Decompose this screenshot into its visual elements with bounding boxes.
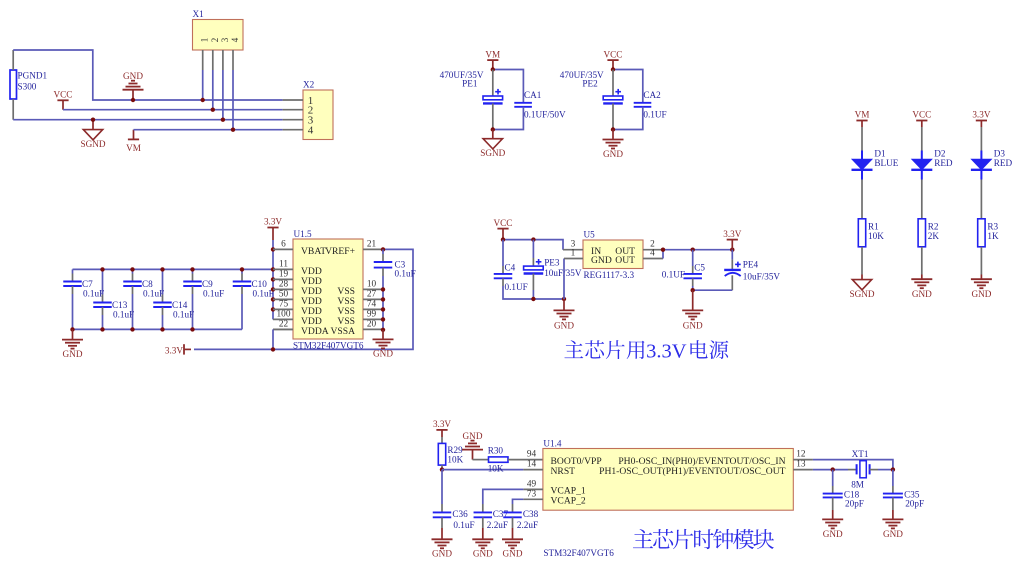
svg-text:3.3V: 3.3V [972,110,990,120]
svg-text:SGND: SGND [80,139,105,149]
pin X1.3 [222,50,224,70]
wire VCC to D2 [921,127,923,151]
capacitor C7 [72,269,74,273]
wire net1 top [13,50,282,100]
capacitor C14 [162,269,164,294]
connector X1 [193,20,244,51]
svg-text:GND: GND [912,289,932,299]
LED D3 [980,151,982,160]
svg-text:2: 2 [210,38,220,43]
power VCC [57,99,68,101]
capacitor C5 [692,250,694,266]
ground GND net1 [132,91,134,101]
junction X1.2 [211,108,215,112]
svg-text:3.3V: 3.3V [165,345,183,355]
pin U5.4 OUT [643,258,663,260]
wire U5 GND pin [563,259,565,300]
junction C35 [891,467,895,471]
pin X1.1 [202,50,204,70]
svg-text:GND: GND [473,549,493,559]
svg-text:PE2: PE2 [582,79,598,89]
svg-text:3.3V: 3.3V [646,340,687,362]
wire U5 OUT to 3.3V [663,250,732,259]
svg-text:10K: 10K [868,231,884,241]
junction bottom bus [160,327,164,331]
svg-text:13: 13 [796,460,806,470]
capacitor CA2 [634,102,652,104]
LED D1 [861,151,863,160]
svg-text:10K: 10K [488,464,504,474]
wire PE2 top [613,70,643,103]
junction X1.3 [221,118,225,122]
svg-text:0.1uF: 0.1uF [395,269,416,279]
svg-text:X2: X2 [303,80,315,90]
svg-text:0.1uF: 0.1uF [173,310,194,320]
junction PE3 bottom [531,297,535,301]
svg-text:VM: VM [126,143,141,153]
wire VCAP_1 [483,489,524,504]
svg-text:VCC: VCC [604,49,623,59]
svg-text:19: 19 [279,270,289,280]
pin U1.5.6 VBAT [273,248,293,250]
power VM over D1 [856,120,867,122]
junction top bus [190,267,194,271]
svg-text:SGND: SGND [480,148,505,158]
wire R3 down [980,247,982,275]
pin X2.2 [283,109,303,111]
svg-text:PE1: PE1 [462,79,478,89]
pin U5.2 OUT [643,249,663,251]
junction net3 SGND [91,118,95,122]
svg-text:6: 6 [281,240,286,250]
wire VSS rail [382,276,384,330]
pin U1.5.11 VDD [273,268,293,270]
svg-text:VDDA: VDDA [301,326,329,337]
svg-text:1: 1 [571,248,576,258]
svg-text:GND: GND [554,320,574,330]
ground GND under cap bank [72,329,74,339]
svg-text:2K: 2K [928,231,940,241]
svg-text:VCC: VCC [912,110,931,120]
wire PE2 bottom [613,107,643,130]
wire GND bottom U5 [503,286,564,299]
capacitor C13 [102,269,104,294]
svg-text:0.1uF: 0.1uF [83,289,104,299]
wire D1 to R1 [861,180,863,219]
junction PE2 top [611,67,615,71]
svg-text:3: 3 [220,37,230,42]
power 3.3V over U1.5 [267,227,278,229]
capacitor C36 [441,504,443,512]
svg-text:GND: GND [683,320,703,330]
capacitor C3 [382,249,384,254]
component PGND1 [10,70,17,99]
pin U1.5.75 VDD [273,308,293,310]
svg-text:GND: GND [591,255,612,266]
svg-text:C9: C9 [202,279,213,289]
svg-text:VSSA: VSSA [330,326,355,337]
svg-text:GND: GND [373,349,393,359]
svg-text:10: 10 [367,280,377,290]
pin U1.5.74 VSS [363,308,383,310]
svg-text:99: 99 [367,310,377,320]
svg-text:GND: GND [123,71,143,81]
pin U1.5.20 VSSA [363,328,383,330]
svg-text:GND: GND [63,349,83,359]
pin U1.5.21 VREF+ [363,248,383,250]
svg-text:28: 28 [279,280,289,290]
svg-text:X1: X1 [193,9,205,19]
svg-text:CA2: CA2 [643,90,661,100]
pin U1.4.14 NRST [523,469,543,471]
svg-text:C13: C13 [112,300,128,310]
wire VCAP_2 [513,499,524,504]
svg-text:10uF/35V: 10uF/35V [544,268,582,278]
svg-text:R1: R1 [868,221,879,231]
junction bottom bus [190,327,194,331]
svg-text:1: 1 [200,38,210,43]
pin U5.1 GND [564,258,583,260]
capacitor C4 [502,240,504,266]
junction X1.4 [231,128,235,132]
junction bottom bus [70,327,74,331]
svg-text:4: 4 [308,125,314,137]
svg-text:0.1uF: 0.1uF [203,289,224,299]
junction X1.1 [201,98,205,102]
ground SGND net3 [92,120,94,130]
svg-text:0.1UF: 0.1UF [505,282,528,292]
junction U5 OUT [661,248,665,252]
junction PE4 top [730,248,734,252]
wire OSC_IN top [813,460,893,470]
svg-text:20: 20 [367,320,377,330]
wire OSC_OUT [813,469,848,471]
pin U1.4.12 OSC_IN [793,459,813,461]
svg-text:PE4: PE4 [743,260,759,270]
svg-text:75: 75 [279,300,289,310]
svg-text:VCC: VCC [494,218,513,228]
junctions VSS rail [381,287,385,291]
svg-text:0.1uF: 0.1uF [253,289,274,299]
svg-text:PH1-OSC_OUT(PH1)/EVENTOUT/OSC_: PH1-OSC_OUT(PH1)/EVENTOUT/OSC_OUT [599,466,786,477]
junction VREF+ [381,247,385,251]
capacitor C18 [832,470,834,486]
svg-text:CA1: CA1 [524,90,542,100]
svg-text:74: 74 [367,300,377,310]
svg-text:RED: RED [934,158,953,168]
ground GND under C37 [482,528,484,539]
svg-text:VM: VM [855,110,870,120]
svg-text:OUT: OUT [615,255,635,266]
svg-text:BLUE: BLUE [874,158,898,168]
wire R1 down [861,247,863,275]
wire NRST to C36 [441,470,443,504]
svg-text:R29: R29 [447,445,463,455]
svg-text:GND: GND [503,549,523,559]
ground GND under C18 [832,510,834,519]
svg-text:3.3V: 3.3V [723,229,741,239]
crystal XT1 [848,469,857,471]
svg-text:C14: C14 [172,300,188,310]
svg-text:C4: C4 [505,263,516,273]
svg-text:PGND1: PGND1 [18,71,48,81]
svg-text:R30: R30 [488,445,504,455]
wire 3.3V to D3 [980,127,982,151]
LED D2 [921,151,923,160]
svg-text:GND: GND [971,289,991,299]
svg-text:U5: U5 [584,230,596,240]
capacitor PE1 [492,70,494,97]
wire X1.3 to net3 [222,70,224,120]
wire NRST [442,469,523,471]
svg-text:REG1117-3.3: REG1117-3.3 [584,270,635,280]
pin X1.4 [232,50,234,70]
svg-text:STM32F407VGT6: STM32F407VGT6 [543,548,614,558]
power VM over PE1 [487,59,498,61]
power VCC over D2 [916,120,927,122]
pin U1.5.10 VSS [363,288,383,290]
junctions 3.3V rail U1.5 [271,247,275,251]
capacitor PE4 [731,250,733,260]
svg-text:22: 22 [279,320,289,330]
svg-text:2.2uF: 2.2uF [517,520,538,530]
junction bottom bus [130,327,134,331]
wire net3 [13,119,282,121]
power VCC over PE2 [607,59,618,61]
pin X1.2 [212,50,214,70]
svg-text:GND: GND [463,431,483,441]
wire VREF+ to 3.3V [194,249,413,349]
caption clock module [633,529,653,548]
power VCC over U5 [497,228,508,230]
junction bottom bus [100,327,104,331]
pin U1.5.100 VDD [273,318,293,320]
svg-text:SGND: SGND [849,289,874,299]
pin U1.5.50 VDD [273,298,293,300]
capacitor C10 [241,269,243,273]
svg-text:C7: C7 [82,279,93,289]
pin X2.3 [283,119,303,121]
svg-text:4: 4 [650,248,655,258]
junction net1 GND [131,98,135,102]
svg-text:10uF/35V: 10uF/35V [743,272,781,282]
power 3.3V over PE4 [727,239,738,241]
svg-text:3.3V: 3.3V [264,217,282,227]
junction top bus [130,267,134,271]
pin U1.4.49 VCAP_1 [523,488,543,490]
svg-text:VCAP_2: VCAP_2 [551,496,586,507]
junction PE1 bottom [491,127,495,131]
svg-text:VM: VM [485,49,500,59]
svg-text:GND: GND [823,529,843,539]
ground GND over R30 [462,449,483,451]
ground GND under C5 [692,290,694,310]
svg-text:C10: C10 [252,279,268,289]
wire PE4 bottom [693,289,733,291]
svg-text:VREF+: VREF+ [325,246,355,257]
svg-text:U1.4: U1.4 [543,438,562,448]
wire net2 VCC [63,109,283,111]
caption power supply 3.3V [564,340,583,358]
svg-text:PE3: PE3 [544,258,560,268]
pin U1.5.22 VDDA [273,328,293,330]
junction PE2 bottom [611,127,615,131]
svg-text:4: 4 [230,37,240,42]
junction PE1 top [491,67,495,71]
svg-text:R2: R2 [928,221,939,231]
svg-text:94: 94 [527,450,537,460]
wire X1.1 to net1 [202,70,204,100]
capacitor CA1 [514,102,532,104]
junction PE3 top [531,237,535,241]
svg-text:GND: GND [603,149,623,159]
wire 3.3V rail U1.5 [272,240,274,319]
ground GND under U5 [563,299,565,310]
ground SGND under R1 [861,275,863,280]
wire PE1 top [493,70,524,103]
pin U1.4.73 VCAP_2 [523,498,543,500]
resistor R3 [978,219,985,247]
pin U5.3 IN [563,249,583,251]
svg-text:0.1uF: 0.1uF [453,520,474,530]
capacitor C8 [132,269,134,273]
svg-text:14: 14 [527,460,537,470]
svg-text:VCC: VCC [54,90,73,100]
svg-text:C5: C5 [694,263,705,273]
svg-text:0.1UF/50V: 0.1UF/50V [524,110,566,120]
ground SGND under PE1 [492,130,494,139]
wire D2 to R2 [921,180,923,219]
svg-text:0.1UF: 0.1UF [662,270,685,280]
junction C5 bottom [691,288,695,292]
IC U5 [583,240,643,269]
svg-text:GND: GND [883,529,903,539]
capacitor C38 [512,504,514,512]
junction VDDA [271,347,275,351]
svg-text:10K: 10K [447,454,463,464]
ground GND under C36 [441,528,443,539]
capacitor C35 [892,470,894,486]
svg-text:0.1uF: 0.1uF [143,289,164,299]
junction C5 top [691,248,695,252]
resistor R1 [858,219,865,247]
wire net4 VM [134,129,283,131]
pin PGND1.1 [12,50,14,70]
svg-text:11: 11 [279,260,288,270]
svg-text:S300: S300 [18,82,37,92]
pin U1.4.13 OSC_OUT [793,469,813,471]
ground GND under C38 [512,528,514,539]
IC U1.4 [543,449,793,511]
svg-text:27: 27 [367,290,377,300]
svg-text:20pF: 20pF [905,499,924,509]
pin U1.5.99 VSS [363,318,383,320]
svg-text:21: 21 [367,240,377,250]
resistor R2 [918,219,925,247]
ground GND under R3 [980,275,982,280]
pin X2.4 [283,129,303,131]
capacitor C9 [192,269,194,273]
wire VM to D1 [861,127,863,151]
wire GND bottom bus [73,328,243,330]
svg-text:0.1UF: 0.1UF [643,110,666,120]
junction NRST [440,467,444,471]
wire XT1 right [878,469,893,471]
pin X2.1 [283,99,303,101]
svg-text:C36: C36 [452,509,468,519]
pin PGND1.2 [12,99,14,120]
power 3.3V over D3 [976,120,987,122]
junction VCC [501,237,505,241]
wire PE1 bottom [493,107,524,130]
svg-text:50: 50 [279,290,289,300]
svg-text:20pF: 20pF [845,499,864,509]
ground GND under U1.5 [382,330,384,340]
svg-text:C38: C38 [523,509,539,519]
svg-text:1K: 1K [987,231,999,241]
svg-text:NRST: NRST [551,466,576,477]
capacitor PE3 [532,240,534,258]
power VM [133,130,135,140]
pin U1.5.27 VSS [363,298,383,300]
svg-text:GND: GND [432,549,452,559]
junction U5 GND [562,297,566,301]
wire R2 down [921,247,923,275]
svg-text:R3: R3 [987,221,998,231]
power 3.3V over R29 [436,429,447,431]
svg-text:VBAT: VBAT [301,246,326,257]
capacitor C37 [482,504,484,512]
resistor R30 [473,459,489,461]
svg-text:3.3V: 3.3V [433,419,451,429]
svg-text:0.1uF: 0.1uF [113,310,134,320]
ground GND under PE2 [612,130,614,140]
junction top bus [160,267,164,271]
pin U1.5.28 VDD [273,288,293,290]
svg-text:U1.5: U1.5 [294,229,313,239]
junction top bus [100,267,104,271]
wire X1.4 to net4 [232,70,234,130]
svg-text:100: 100 [277,310,291,320]
pin U1.5.19 VDD [273,278,293,280]
svg-text:RED: RED [994,158,1013,168]
svg-text:12: 12 [796,450,806,460]
ground GND under R2 [921,275,923,280]
IC U1.5 [293,239,363,339]
svg-text:49: 49 [527,480,537,490]
svg-text:8M: 8M [851,480,864,490]
svg-text:C8: C8 [142,279,153,289]
wire D3 to R3 [980,180,982,219]
svg-text:2.2uF: 2.2uF [487,520,508,530]
wire VDDA [273,328,293,330]
junction top bus [240,267,244,271]
junction C18 [831,467,835,471]
wire VCC to U5 IN [503,240,563,250]
svg-text:73: 73 [527,489,537,499]
connector X2 [303,90,333,140]
capacitor PE2 [612,70,614,97]
wire VDD top bus [73,268,274,270]
svg-text:XT1: XT1 [852,449,869,459]
resistor R29 [441,437,443,443]
wire X1.2 to net2 [212,70,214,110]
ground GND under C35 [892,510,894,519]
